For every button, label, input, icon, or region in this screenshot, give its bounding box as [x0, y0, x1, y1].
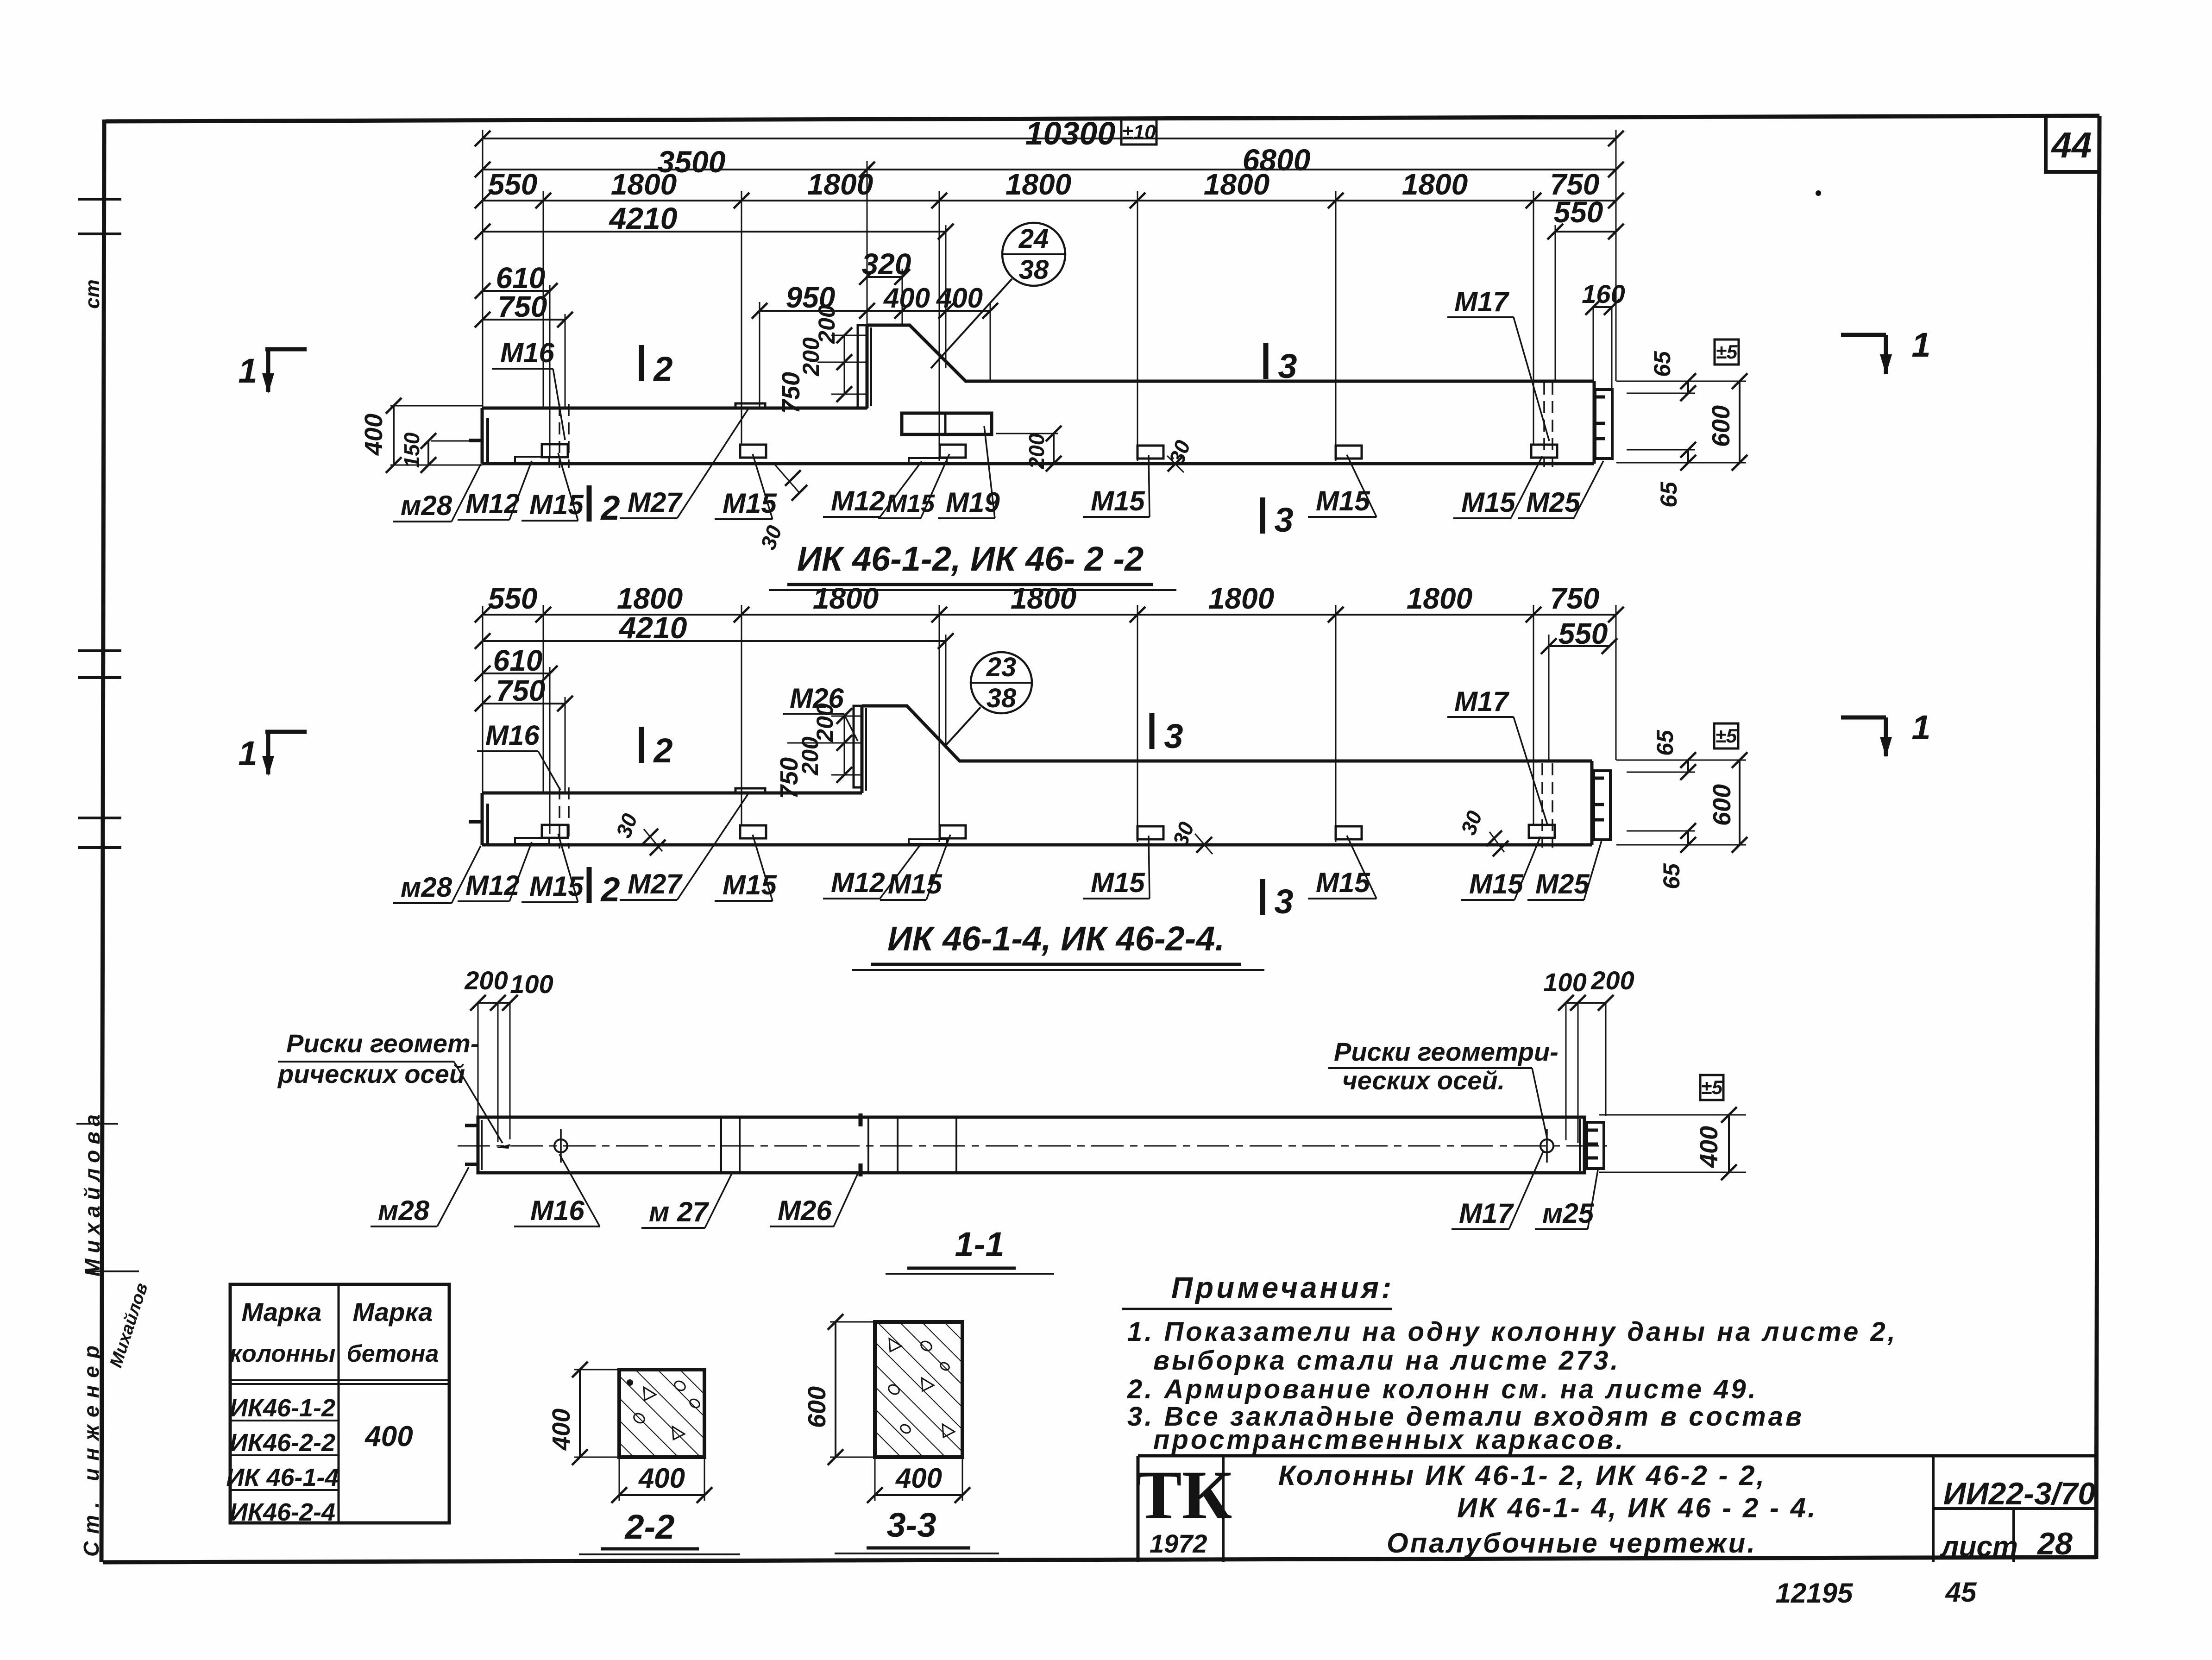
svg-text:3: 3 — [1164, 717, 1183, 755]
svg-text:200: 200 — [812, 703, 838, 742]
svg-text:1800: 1800 — [1407, 582, 1472, 615]
drawing1 plate M26 on bracket face — [858, 325, 867, 408]
drawing2 section mark 2 top — [641, 727, 673, 770]
section 3-3 dim 400 bottom — [867, 1457, 970, 1503]
svg-text:400: 400 — [883, 283, 930, 314]
svg-text:1800: 1800 — [1402, 168, 1468, 201]
svg-text:400: 400 — [360, 414, 388, 456]
svg-text:1: 1 — [1911, 708, 1930, 747]
svg-text:М15: М15 — [1316, 485, 1370, 516]
drawing2 label M17 top — [1447, 686, 1547, 824]
svg-text:ИК46-2-2: ИК46-2-2 — [230, 1429, 335, 1457]
notes heading — [1122, 1271, 1394, 1309]
svg-text:200: 200 — [1590, 966, 1634, 995]
drawing1 extension lines — [483, 130, 1616, 461]
drawing1 dimension line 3500 — [475, 145, 875, 179]
svg-text:65: 65 — [1659, 863, 1684, 889]
drawing2 bottom labels — [393, 792, 1602, 903]
svg-text:М27: М27 — [628, 487, 683, 518]
drawing1 plate M19 double — [902, 413, 992, 434]
drawing1 bracket small dims 200 200 750 — [777, 305, 867, 414]
svg-text:100: 100 — [510, 969, 553, 999]
svg-text:2: 2 — [600, 489, 620, 527]
svg-text:150: 150 — [400, 432, 424, 468]
svg-text:рических осей: рических осей — [277, 1059, 465, 1088]
drawing2 section cut mark 1 left — [238, 732, 307, 776]
separator line left margin — [76, 1124, 139, 1271]
drawing1 dimension line 6800 — [859, 143, 1624, 177]
section 3-3 title — [835, 1506, 999, 1553]
svg-text:1-1: 1-1 — [955, 1225, 1005, 1264]
drawing2 dim 30 left — [611, 810, 666, 855]
svg-text:38: 38 — [987, 683, 1017, 713]
svg-text:400: 400 — [547, 1408, 575, 1451]
svg-text:1. Показатели на одну колон: 1. Показатели на одну колонну даны на ли… — [1127, 1317, 1898, 1347]
plan riska circles — [554, 1129, 1553, 1163]
drawing1 label M17 top — [1447, 286, 1549, 441]
svg-text:М25: М25 — [1526, 487, 1581, 518]
svg-text:М15: М15 — [888, 868, 943, 899]
svg-text:М15: М15 — [723, 869, 777, 900]
drawing1 label M16 — [492, 337, 565, 440]
svg-text:550: 550 — [1554, 195, 1603, 229]
svg-text:м 27: м 27 — [649, 1196, 709, 1227]
drawing1 anchor M17 dashed — [1544, 383, 1552, 467]
svg-text:М12: М12 — [831, 485, 885, 516]
plan view body — [478, 1117, 1584, 1173]
title block doc number — [1943, 1476, 2096, 1511]
drawing1 dim 200 at plate M19 — [996, 426, 1062, 472]
svg-text:400: 400 — [1695, 1126, 1723, 1168]
svg-text:М17: М17 — [1454, 686, 1509, 717]
svg-text:бетона: бетона — [347, 1340, 439, 1367]
svg-text:3: 3 — [1274, 882, 1293, 921]
svg-text:1800: 1800 — [813, 582, 879, 615]
plan left dims 200 100 — [464, 966, 553, 1142]
svg-text:2. Армирование колонн см. на: 2. Армирование колонн см. на листе 49. — [1127, 1374, 1758, 1404]
plan right dim 400 — [1599, 1107, 1746, 1180]
svg-text:2-2: 2-2 — [624, 1508, 675, 1546]
drawing2 label M26 — [783, 683, 858, 741]
svg-text:Риски геометри-: Риски геометри- — [1334, 1037, 1558, 1066]
drawing1 tolerance box ±10 — [1121, 119, 1156, 145]
svg-text:750: 750 — [498, 290, 547, 323]
svg-text:38: 38 — [1019, 255, 1049, 285]
drawing1 tolerance box ±5 — [1715, 340, 1739, 365]
drawing2 plate M26 on bracket face — [854, 706, 862, 787]
svg-text:400: 400 — [936, 283, 983, 314]
drawing1 dimension line 750 — [475, 290, 573, 327]
plan hooks M28 — [465, 1126, 478, 1164]
svg-text:ИК46-1-2: ИК46-1-2 — [230, 1394, 335, 1422]
svg-text:±5: ±5 — [1716, 341, 1738, 363]
drawing2 end hook M28 — [469, 820, 483, 824]
svg-text:М15: М15 — [1469, 868, 1524, 899]
drawing2 dimension row 550+5x1800+750 — [475, 582, 1624, 622]
drawing1 anchor M16 dashed — [559, 404, 569, 468]
svg-text:1: 1 — [238, 352, 257, 390]
svg-text:М17: М17 — [1459, 1198, 1514, 1229]
drawing1 strips M12 — [515, 457, 947, 463]
svg-text:М15: М15 — [1461, 487, 1516, 518]
svg-text:3: 3 — [1274, 501, 1293, 539]
svg-text:400: 400 — [364, 1421, 413, 1452]
svg-text:3-3: 3-3 — [887, 1506, 936, 1544]
drawing1 plate M27 on top edge — [735, 403, 765, 408]
svg-text:44: 44 — [2051, 125, 2092, 165]
svg-text:200: 200 — [798, 337, 824, 377]
svg-text:24: 24 — [1018, 224, 1049, 254]
handwritten numbers bottom — [1776, 1577, 1977, 1609]
svg-text:ТК: ТК — [1136, 1457, 1232, 1534]
drawing2 end channel M25 — [1594, 771, 1610, 840]
drawing2 label M16 — [477, 720, 560, 790]
svg-text:М25: М25 — [1535, 868, 1590, 899]
left border ticks — [78, 199, 121, 848]
drawing2 section mark 2 bottom — [589, 867, 620, 909]
svg-text:1: 1 — [1911, 326, 1930, 364]
svg-text:750: 750 — [775, 757, 803, 799]
drawing2 dimension line 550 right — [1541, 617, 1617, 654]
drawing2 anchor M16 dashed — [559, 787, 569, 849]
svg-text:28: 28 — [2036, 1526, 2073, 1561]
table rows — [226, 1394, 413, 1526]
svg-text:М16: М16 — [530, 1195, 584, 1226]
svg-text:4210: 4210 — [618, 610, 687, 645]
drawing2 plate M27 on top edge — [735, 788, 765, 793]
drawing1 left end dims 400 150 — [360, 398, 482, 473]
svg-text:пространственных каркасов.: пространственных каркасов. — [1153, 1425, 1625, 1455]
svg-text:1800: 1800 — [807, 168, 873, 201]
svg-text:12195: 12195 — [1776, 1578, 1854, 1609]
plan note riski right — [1328, 1037, 1558, 1138]
drawing2 tolerance box ±5 — [1714, 723, 1738, 748]
plan internal verticals — [721, 1117, 956, 1173]
drawing1 bottom labels — [393, 407, 1603, 522]
svg-text:2: 2 — [653, 350, 672, 388]
drawing2 column outline — [482, 706, 1592, 845]
sheet number box 44 — [2046, 117, 2098, 172]
svg-text:1800: 1800 — [1208, 582, 1274, 615]
drawing1 title IK 46-1-2 — [769, 540, 1176, 590]
svg-text:400: 400 — [895, 1463, 942, 1494]
svg-text:750: 750 — [777, 372, 805, 414]
svg-text:М27: М27 — [628, 868, 683, 899]
notes text — [1127, 1317, 1898, 1455]
svg-text:600: 600 — [803, 1386, 831, 1428]
svg-text:ИК 46-1- 4, ИК 46 - 2 - 4.: ИК 46-1- 4, ИК 46 - 2 - 4. — [1457, 1492, 1817, 1523]
svg-text:1: 1 — [238, 734, 257, 773]
drawing2 anchor M17 dashed — [1542, 763, 1552, 848]
section 3-3 dim 600 left — [803, 1314, 875, 1465]
svg-text:1800: 1800 — [1011, 582, 1076, 615]
drawing1 detail circle 24/38 — [931, 223, 1065, 368]
plan title 1-1 — [886, 1225, 1054, 1274]
drawing2 bracket small dims 200 200 750 — [775, 703, 862, 799]
small dot top right — [1816, 190, 1821, 196]
drawing2 dim 30 middle — [1168, 818, 1213, 854]
svg-text:160: 160 — [1582, 279, 1625, 308]
plan tolerance box ±5 — [1700, 1075, 1723, 1100]
svg-text:200: 200 — [464, 966, 508, 995]
section 2-2 dim 400 bottom — [611, 1457, 712, 1503]
drawing1 column outline — [482, 325, 1594, 464]
plan M26 tab marks — [859, 1113, 863, 1176]
drawing1 section mark 2 top — [641, 345, 673, 388]
svg-text:ст: ст — [81, 279, 104, 309]
svg-text:М15: М15 — [1316, 867, 1370, 898]
page border frame — [101, 116, 2099, 1562]
svg-text:М16: М16 — [500, 337, 554, 368]
section 2-2 square hatched — [619, 1370, 704, 1457]
plan centerline — [458, 1145, 1607, 1147]
svg-text:ИИ22-3/70: ИИ22-3/70 — [1943, 1476, 2096, 1511]
drawing1 plates M15 on bottom edge — [542, 444, 1557, 459]
svg-text:ИК 46-1-2, ИК 46- 2 -2: ИК 46-1-2, ИК 46- 2 -2 — [797, 540, 1144, 578]
title block main text — [1278, 1460, 1817, 1559]
drawing1 dim 30 left — [756, 464, 807, 553]
svg-text:М15: М15 — [1091, 485, 1145, 516]
drawing1 dimension line 550 right — [1547, 195, 1624, 239]
plan note riski left — [277, 1029, 503, 1143]
svg-text:550: 550 — [488, 582, 538, 615]
plan right dims 100 200 — [1543, 966, 1634, 1143]
drawing1 dimension line 4210 — [475, 201, 954, 239]
svg-text:600: 600 — [1707, 405, 1735, 447]
svg-text:65: 65 — [1652, 729, 1678, 756]
section 3-3 rect hatched — [875, 1322, 962, 1457]
drawing1 end hook M28 — [469, 439, 483, 442]
svg-text:550: 550 — [488, 168, 538, 201]
svg-text:лист: лист — [1940, 1531, 2018, 1563]
svg-text:750: 750 — [496, 674, 546, 707]
svg-text:Михайлова: Михайлова — [80, 1109, 104, 1276]
svg-text:М12: М12 — [831, 867, 885, 898]
drawing1 dimension line 10300 — [475, 115, 1624, 151]
section 2-2 dim 400 left — [547, 1362, 619, 1465]
svg-text:Риски геомет-: Риски геомет- — [286, 1029, 479, 1058]
svg-text:2: 2 — [600, 870, 620, 909]
drawing1 right dims 65 600 65 — [1616, 351, 1747, 508]
svg-text:ИК 46-1-4: ИК 46-1-4 — [226, 1464, 339, 1491]
svg-text:м28: м28 — [401, 490, 452, 521]
svg-text:Примечания:: Примечания: — [1171, 1271, 1394, 1304]
svg-text:Опалубочные чертежи.: Опалубочные чертежи. — [1387, 1528, 1757, 1559]
drawing1 dimension row 550+5x1800+750 — [475, 168, 1624, 208]
drawing2 detail circle 23/38 — [946, 652, 1032, 745]
drawing2 section cut mark 1 right — [1841, 708, 1931, 757]
svg-text:ИК 46-1-4, ИК 46-2-4.: ИК 46-1-4, ИК 46-2-4. — [887, 919, 1225, 958]
svg-text:1800: 1800 — [1005, 168, 1071, 201]
drawing2 title IK 46-1-4 — [852, 919, 1264, 970]
plan end channel M25 — [1587, 1122, 1604, 1169]
drawing1 section cut mark 1 left — [238, 349, 307, 394]
drawing2 strips M12 — [515, 838, 947, 844]
svg-text:Ст. инженер: Ст. инженер — [79, 1338, 103, 1557]
svg-text:м28: м28 — [401, 872, 452, 903]
drawing2 dim 30 right — [1456, 807, 1508, 856]
svg-text:45: 45 — [1945, 1577, 1977, 1608]
svg-text:М15: М15 — [723, 488, 777, 519]
svg-text:23: 23 — [986, 652, 1017, 682]
table header texts — [230, 1297, 439, 1367]
drawing2 dimension line 4210 — [475, 610, 954, 649]
drawing1 dimension line 160 — [1582, 279, 1625, 388]
drawing2 extension lines — [483, 605, 1616, 842]
drawing1 section mark 3 bottom — [1263, 497, 1294, 539]
title block frame — [1138, 1456, 2097, 1562]
svg-text:ческих осей.: ческих осей. — [1342, 1066, 1505, 1095]
drawing1 section mark 2 bottom — [589, 485, 620, 527]
svg-text:100: 100 — [1543, 968, 1586, 997]
svg-text:65: 65 — [1656, 481, 1682, 508]
svg-text:610: 610 — [493, 644, 543, 677]
svg-text:65: 65 — [1649, 351, 1675, 377]
svg-text:3: 3 — [1278, 347, 1297, 385]
svg-text:Колонны ИК 46-1- 2, ИК 46: Колонны ИК 46-1- 2, ИК 46-2 - 2, — [1278, 1460, 1766, 1491]
plan bottom labels — [371, 1151, 1598, 1229]
drawing2 dimension line 750 — [475, 674, 573, 711]
svg-text:550: 550 — [1558, 617, 1608, 650]
svg-text:±5: ±5 — [1716, 725, 1737, 747]
drawing1 dimension line 950+400+400 — [752, 281, 998, 319]
marks table — [230, 1284, 449, 1523]
drawing1 dimension line 320 — [859, 247, 911, 285]
svg-text:ИК46-2-4: ИК46-2-4 — [230, 1498, 335, 1526]
svg-text:1800: 1800 — [1204, 168, 1269, 201]
svg-text:750: 750 — [1550, 582, 1600, 615]
drawing1 end channel M25 — [1595, 390, 1612, 459]
svg-text:1800: 1800 — [611, 168, 677, 201]
svg-text:выборка стали на листе 273.: выборка стали на листе 273. — [1153, 1346, 1620, 1376]
drawing1 dimension line 610 — [475, 261, 558, 299]
drawing1 dim 30 middle — [1164, 437, 1195, 472]
svg-text:1972: 1972 — [1150, 1529, 1207, 1558]
svg-text:М26: М26 — [778, 1195, 832, 1226]
svg-text:600: 600 — [1708, 784, 1736, 826]
TK logo — [1136, 1457, 1232, 1558]
svg-text:М17: М17 — [1454, 286, 1509, 317]
svg-text:200: 200 — [1024, 433, 1049, 469]
drawing2 dimension line 610 — [475, 644, 558, 681]
drawing2 section mark 3 bottom — [1263, 879, 1294, 921]
svg-text:Марка: Марка — [353, 1297, 433, 1327]
svg-text:м28: м28 — [378, 1195, 430, 1226]
svg-text:10300: 10300 — [1025, 115, 1116, 151]
svg-text:±10: ±10 — [1122, 121, 1156, 144]
svg-text:м25: м25 — [1542, 1198, 1595, 1229]
drawing1 section mark 3 top — [1266, 343, 1297, 385]
drawing1 section cut mark 1 right — [1841, 326, 1931, 375]
svg-text:М16: М16 — [485, 720, 540, 751]
drawing2 section mark 3 top — [1152, 713, 1183, 755]
plan riska mark left — [496, 1144, 510, 1149]
svg-text:колонны: колонны — [230, 1340, 336, 1367]
section 2-2 title — [579, 1508, 740, 1554]
svg-text:2: 2 — [653, 731, 672, 770]
svg-text:400: 400 — [638, 1463, 685, 1494]
svg-text:±5: ±5 — [1701, 1076, 1723, 1098]
svg-text:Марка: Марка — [242, 1297, 322, 1327]
svg-text:320: 320 — [862, 247, 911, 281]
svg-text:М15: М15 — [1091, 867, 1145, 898]
svg-text:4210: 4210 — [609, 201, 678, 235]
drawing2 plates M15 on bottom edge — [542, 825, 1555, 839]
title block sheet — [1940, 1526, 2073, 1563]
drawing2 right dims 65 600 65 — [1616, 729, 1747, 889]
